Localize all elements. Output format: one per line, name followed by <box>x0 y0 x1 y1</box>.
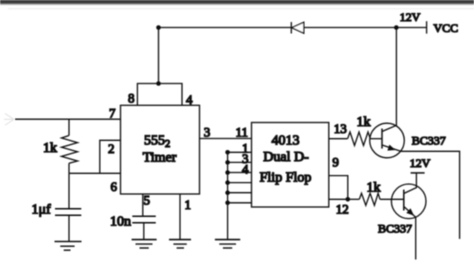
Q1 emitter diagonal <box>382 145 401 151</box>
svg-text:BC337: BC337 <box>412 133 446 147</box>
wire: node D to R3 <box>348 198 360 200</box>
capacitor C1 1uf plates <box>55 208 81 210</box>
junction dot stub 3 <box>225 160 230 165</box>
node A junction dot (rail to 555 pins 8/4) <box>156 25 161 30</box>
svg-text:12V: 12V <box>400 10 421 24</box>
svg-text:VCC: VCC <box>434 21 459 35</box>
Q2 emitter diagonal <box>404 207 416 218</box>
svg-text:4013: 4013 <box>272 134 300 149</box>
ground G4 (4013 unused pins) <box>215 239 240 241</box>
Q1 collector (diagonal + vertical up to node B) <box>382 28 396 132</box>
junction dot stub (4th) <box>225 180 230 185</box>
node D junction dot <box>346 197 351 202</box>
svg-text:2: 2 <box>108 141 115 156</box>
junction dot stub 4 <box>225 170 230 175</box>
transistor Q1 BC337 circle <box>370 123 405 158</box>
wire: 555 pin 1 stub to ground <box>179 194 181 239</box>
svg-text:3: 3 <box>204 125 211 140</box>
svg-text:6: 6 <box>111 179 118 194</box>
VCC terminal bar <box>426 21 428 33</box>
wire: input wire to 555 pin 7 <box>15 118 121 120</box>
wire: Q1 emitter out to the right then down <box>401 151 460 239</box>
wire: node C to 555 pin 6 <box>69 172 121 174</box>
wire: 4013 pin 13 to R2 <box>329 138 348 140</box>
wire: R2 to Q1 base <box>370 138 382 140</box>
svg-text:5552: 5552 <box>144 134 170 151</box>
Q1 base bar <box>381 129 383 149</box>
Q2 collector (diagonal + vertical up to 12V bar) <box>404 173 417 194</box>
transistor Q2 BC337 circle <box>391 184 426 219</box>
wire: bridge joining 555 pin 8 and pin 4 <box>137 84 182 106</box>
wire: 4013 grounded pin stub (5th) <box>228 192 252 194</box>
wire: branch up to 555 pin 2 <box>100 140 121 173</box>
wire: 555 pin 5 stub <box>142 194 144 216</box>
wire: 4013 grounded pin stub (6th) <box>228 202 252 204</box>
resistor R1 1k (vertical zigzag) <box>62 136 78 164</box>
svg-text:Flip Flop: Flip Flop <box>260 171 312 186</box>
Q2 base bar <box>403 190 405 211</box>
wire: 4013 grounded pin stub 4 <box>228 172 252 174</box>
svg-text:BC337: BC337 <box>378 222 412 236</box>
wire: drop from pin7 wire to resistor R1 <box>68 119 70 135</box>
node B junction dot (rail to Q1 collector) <box>394 25 399 30</box>
wire: 4013 grounded pin stub 1 <box>228 151 252 153</box>
resistor R2 1k (horizontal zigzag) <box>348 132 371 146</box>
wire: drop from node A to 555 pin8/4 bridge <box>158 28 160 84</box>
junction dot stub (5th) <box>225 190 230 195</box>
wire: node C down to capacitor C1 <box>68 173 70 209</box>
wire: 555 pin 3 to 4013 pin 11 <box>200 138 252 140</box>
svg-text:10n: 10n <box>110 215 131 230</box>
wire: C1 to ground <box>68 215 70 241</box>
wire: 4013 grounded pin stub 3 <box>228 161 252 163</box>
svg-text:11: 11 <box>236 125 249 140</box>
wire: 4013 pin 12 to node D <box>329 198 348 200</box>
junction dot stub (6th) <box>225 201 230 206</box>
wire: 4013 grounded pin stub (4th) <box>228 182 252 184</box>
diode D1 triangle (pointing left) <box>292 22 304 33</box>
wire: 4013 pin 9 right then down to node D <box>329 176 348 200</box>
wire: R3 to Q2 base <box>380 198 404 200</box>
op-amp/IC U1 555 Timer box <box>121 105 200 194</box>
faint input arrow (left end) <box>4 114 14 126</box>
svg-text:1μf: 1μf <box>32 203 52 218</box>
window top bar (chrome) <box>0 0 474 6</box>
resistor R3 1k (horizontal zigzag) <box>359 193 380 205</box>
svg-text:1k: 1k <box>367 181 381 196</box>
diode D1 cathode bar <box>290 22 292 34</box>
wire: VCC rail right segment (diode anode to VCC terminal) <box>304 27 426 29</box>
svg-text:1k: 1k <box>43 141 57 156</box>
svg-text:9: 9 <box>332 155 339 170</box>
Q1 emitter arrow <box>387 145 395 151</box>
Q2 emitter arrow <box>406 208 414 215</box>
wire: Q2 emitter down <box>415 217 417 259</box>
svg-text:7: 7 <box>109 106 116 121</box>
IC U2 4013 Dual D-Flip Flop box <box>252 123 329 208</box>
svg-text:1k: 1k <box>357 115 371 130</box>
ground G1 (under C1) <box>55 241 82 243</box>
svg-text:12: 12 <box>336 201 349 216</box>
svg-text:1: 1 <box>185 197 192 212</box>
ground G3 (under pin 1) <box>169 239 191 241</box>
svg-text:Dual D-: Dual D- <box>263 150 309 165</box>
wire: R1 bottom to node C <box>68 163 70 173</box>
svg-text:8: 8 <box>128 91 135 106</box>
svg-text:12V: 12V <box>410 156 431 170</box>
svg-text:13: 13 <box>334 121 347 136</box>
svg-text:Timer: Timer <box>143 151 177 166</box>
wire: grounded-pin bus down to ground G4 <box>227 152 229 239</box>
svg-text:4: 4 <box>242 161 249 176</box>
capacitor C2 10n plates <box>132 215 156 217</box>
12V terminal bar (Q2 collector) <box>411 172 425 174</box>
junction dot on pin8/4 bridge <box>156 81 161 86</box>
svg-text:5: 5 <box>144 193 151 208</box>
wire: VCC rail left segment (junction A to diode cathode) <box>159 27 292 29</box>
ground G2 (under C2) <box>132 239 157 241</box>
wire: C2 to ground <box>143 223 145 240</box>
junction dot stub 1 <box>225 150 230 155</box>
